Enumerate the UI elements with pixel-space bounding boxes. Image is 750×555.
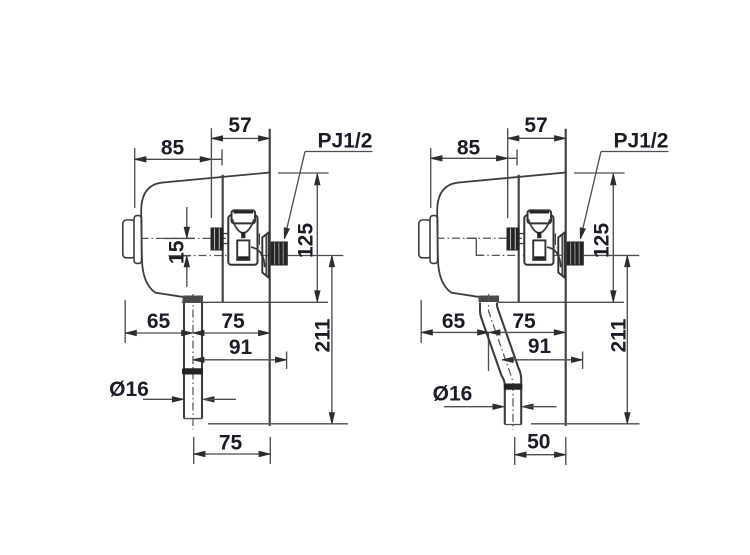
bottom reference line: [531, 423, 640, 425]
body in-wall bottom line: [498, 301, 625, 303]
lower centerline solid extension: [584, 254, 640, 256]
dim 15 arrows: [186, 207, 188, 238]
svg-text:50: 50: [527, 430, 550, 453]
body top edge: [459, 173, 566, 183]
dim 85 extension line: [430, 148, 432, 208]
body face line: [222, 175, 224, 302]
pipe collar joint: [182, 368, 203, 374]
svg-text:211: 211: [311, 318, 334, 352]
svg-text:PJ1/2: PJ1/2: [614, 130, 669, 153]
svg-text:57: 57: [524, 114, 547, 137]
dim 15 lower ref: [168, 255, 190, 257]
wall line: [269, 129, 271, 426]
svg-text:211: 211: [607, 318, 630, 352]
wall line: [565, 129, 567, 426]
body in-wall bottom line: [182, 301, 328, 303]
bent pipe left edge: [480, 303, 505, 425]
dim 57 extension line: [210, 128, 212, 218]
dim 85: [431, 157, 517, 159]
pipe boss: [183, 296, 204, 303]
svg-text:57: 57: [228, 114, 251, 137]
dim 65: [125, 332, 193, 334]
svg-text:PJ1/2: PJ1/2: [318, 130, 373, 153]
svg-text:125: 125: [590, 223, 613, 258]
bottom reference line: [208, 423, 348, 425]
svg-text:75: 75: [512, 310, 536, 333]
inlet cap: [123, 220, 136, 258]
pipe end cap: [505, 424, 521, 426]
inlet washer: [134, 216, 142, 264]
svg-text:Ø16: Ø16: [109, 378, 149, 401]
inlet cap: [419, 220, 432, 258]
pipe end cap: [184, 418, 202, 420]
lower centerline solid extension: [288, 255, 343, 257]
svg-text:15: 15: [165, 240, 188, 264]
dim 50: [514, 437, 516, 465]
dim 125: [316, 173, 318, 301]
pipe collar joint: [504, 384, 523, 390]
dim 91: [193, 359, 287, 361]
body top edge: [163, 173, 270, 183]
top reference line: [574, 172, 625, 174]
body outline: [437, 183, 478, 297]
svg-text:75: 75: [221, 310, 245, 333]
pipe right edge: [201, 303, 203, 419]
dim 75 top: [193, 332, 270, 334]
dim 91: [502, 359, 583, 361]
upper centerline: [421, 237, 552, 239]
upper centerline: [125, 237, 228, 239]
dim 57: [211, 137, 269, 139]
dim 57: [508, 137, 566, 139]
dim 65 extension line: [420, 300, 422, 343]
dim 85: [135, 158, 222, 160]
pipe boss: [479, 296, 500, 303]
top reference line: [278, 172, 329, 174]
valve assembly: [211, 210, 288, 278]
dim 65: [421, 331, 489, 333]
pipe centerline bent: [489, 294, 514, 430]
svg-text:85: 85: [457, 137, 481, 160]
pipe extension line: [488, 332, 490, 371]
svg-text:65: 65: [147, 310, 171, 333]
svg-text:75: 75: [219, 432, 243, 455]
lower centerline: [476, 254, 584, 256]
dim 125: [612, 173, 614, 301]
dim 65 extension line: [124, 300, 126, 343]
dim 57 extension line: [507, 128, 509, 218]
pipe left edge: [183, 303, 185, 419]
valve assembly: [507, 210, 584, 278]
svg-text:65: 65: [442, 310, 466, 333]
svg-text:91: 91: [229, 336, 253, 359]
svg-text:125: 125: [294, 223, 317, 258]
bent pipe right edge: [497, 303, 521, 425]
centerline step: [476, 238, 483, 255]
inlet washer: [430, 216, 438, 264]
body outline: [141, 183, 182, 297]
dim 85 extension line: [134, 148, 136, 208]
dim 75 bottom: [193, 437, 195, 464]
pipe centerline: [192, 294, 194, 430]
svg-text:Ø16: Ø16: [433, 383, 473, 406]
dim 75 top: [489, 331, 566, 333]
svg-text:85: 85: [161, 137, 185, 160]
body face line: [518, 175, 520, 302]
svg-text:91: 91: [528, 335, 552, 358]
dim 211: [626, 256, 628, 424]
lower centerline: [183, 255, 288, 257]
centerline step overlap: [467, 237, 477, 239]
dim 211: [331, 256, 333, 424]
dim 15 upper ref: [164, 237, 194, 239]
